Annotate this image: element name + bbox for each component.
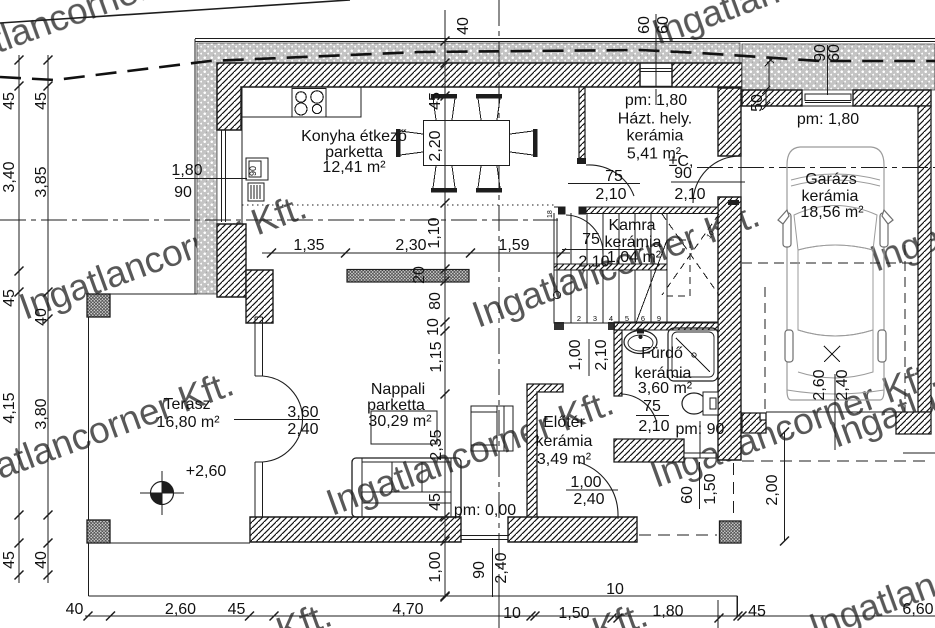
svg-text:6,60: 6,60 <box>902 601 933 618</box>
mirrors <box>778 210 789 224</box>
svg-text:40: 40 <box>66 601 84 618</box>
ENTRY PORCH <box>639 245 935 543</box>
svg-text:60: 60 <box>826 44 843 62</box>
bathroom door arc <box>621 394 656 420</box>
washbasin <box>624 331 657 354</box>
svg-text:40: 40 <box>33 551 50 569</box>
top wall hatched band with chimney hole <box>217 63 742 130</box>
svg-text:2,10: 2,10 <box>674 186 705 203</box>
toilet <box>682 393 706 414</box>
svg-text:2,30: 2,30 <box>395 237 426 254</box>
svg-text:1,00: 1,00 <box>427 551 444 582</box>
bathroom left wall <box>614 330 622 396</box>
garage SE pier <box>896 412 931 434</box>
svg-text:1,50: 1,50 <box>558 605 589 622</box>
DOORS <box>263 156 741 519</box>
KITCHEN DIM LINE 1,35/2,30/1,59 <box>262 249 570 258</box>
svg-text:90: 90 <box>471 561 488 579</box>
terrace pillar NW <box>87 294 110 317</box>
boundary dashed line <box>0 50 935 80</box>
svg-text:80: 80 <box>427 292 444 310</box>
svg-text:18: 18 <box>547 210 554 218</box>
svg-text:2,35: 2,35 <box>428 429 445 460</box>
svg-text:parketta: parketta <box>367 397 425 414</box>
entry door leaf <box>684 453 716 458</box>
ROTATED SMALL DIMS <box>471 14 851 597</box>
left wall hatch step A <box>217 224 246 297</box>
left wall hatch step B <box>246 270 273 323</box>
fridge <box>246 158 268 180</box>
svg-text:+2,60: +2,60 <box>186 463 227 480</box>
svg-text:2,10: 2,10 <box>593 339 610 370</box>
terrace double door arcs <box>263 376 303 462</box>
svg-text:75: 75 <box>605 168 623 185</box>
svg-text:10: 10 <box>606 581 624 598</box>
chair top-right <box>478 98 500 120</box>
svg-text:5: 5 <box>625 314 629 323</box>
chimney flue box <box>640 63 672 87</box>
TERRACE <box>87 294 737 616</box>
svg-text:4: 4 <box>609 314 613 323</box>
svg-text:2: 2 <box>577 314 581 323</box>
dining chairs <box>398 96 535 190</box>
svg-text:2,40: 2,40 <box>493 552 510 583</box>
svg-text:18,56 m²: 18,56 m² <box>800 204 864 221</box>
svg-text:kerámia: kerámia <box>802 188 859 205</box>
kamra/stair middle band <box>554 264 667 270</box>
svg-text:2,40: 2,40 <box>834 369 851 400</box>
svg-text:90: 90 <box>174 184 192 201</box>
stair outline <box>554 213 718 323</box>
LEFT DIM CHAIN inner <box>44 55 53 583</box>
svg-text:60: 60 <box>636 16 653 34</box>
coffee table <box>371 411 437 444</box>
DOOR DIMS <box>171 162 745 508</box>
terrace pillar SW <box>87 520 110 543</box>
svg-text:40: 40 <box>455 17 472 35</box>
terrace outline <box>89 294 251 596</box>
vertical section line <box>498 0 500 597</box>
armchair <box>471 406 513 451</box>
BEAM lintel <box>347 270 469 283</box>
garage stipple band <box>742 44 935 90</box>
svg-text:3,40: 3,40 <box>1 161 18 192</box>
dishwasher vents <box>248 183 264 201</box>
svg-text:3,80: 3,80 <box>33 398 50 429</box>
svg-text:3: 3 <box>593 314 597 323</box>
nappali east wall with top flange <box>527 384 563 519</box>
svg-text:3,85: 3,85 <box>33 166 50 197</box>
svg-text:45: 45 <box>33 92 50 110</box>
svg-text:3,49 m²: 3,49 m² <box>537 451 592 468</box>
dining table <box>424 121 510 166</box>
stair step numbers <box>547 210 716 323</box>
garage top hatch band with door hole <box>742 90 802 106</box>
svg-text:2,20: 2,20 <box>427 130 444 161</box>
svg-text:4,70: 4,70 <box>392 601 423 618</box>
utility/garage wall lower + stair/bath east wall <box>718 197 741 460</box>
ROOM LABELS <box>156 89 864 519</box>
stair top wall band <box>554 206 718 208</box>
left wall window frame <box>222 130 226 222</box>
svg-text:45: 45 <box>427 92 444 110</box>
FURNITURE <box>242 87 510 201</box>
svg-text:45: 45 <box>427 493 444 511</box>
svg-text:30,29 m²: 30,29 m² <box>368 413 432 430</box>
stipple joint line <box>765 58 774 91</box>
garage centerline <box>697 167 935 169</box>
garage inner dashed line <box>742 262 918 264</box>
MAIN-DRAWING <box>0 0 350 23</box>
svg-text:1,59: 1,59 <box>498 237 529 254</box>
south wall east part <box>508 517 637 542</box>
svg-text:1,04 m²: 1,04 m² <box>607 249 662 266</box>
svg-text:10: 10 <box>503 605 521 622</box>
SURVEY POINT <box>140 471 184 515</box>
svg-text:2,60: 2,60 <box>165 601 196 618</box>
top wall outer line (main house) <box>195 39 935 42</box>
WALLS <box>195 39 935 542</box>
MIDDLE DIM CHAIN x445 <box>441 10 450 602</box>
svg-text:Kamra: Kamra <box>608 217 655 234</box>
top+left insulation stipple band <box>197 43 740 294</box>
utility-garage door arc <box>693 156 740 203</box>
svg-text:3,60 m²: 3,60 m² <box>638 380 693 397</box>
svg-text:pm: 1,80: pm: 1,80 <box>797 111 859 128</box>
svg-text:75: 75 <box>582 231 600 248</box>
svg-text:2,00: 2,00 <box>764 474 781 505</box>
utility room left wall <box>579 87 585 163</box>
svg-text:2,40: 2,40 <box>573 491 604 508</box>
GARAGE-SHELL <box>741 44 935 434</box>
svg-text:45: 45 <box>1 92 18 110</box>
stair steps upper flight <box>571 213 667 264</box>
svg-text:1,00: 1,00 <box>567 339 584 370</box>
svg-text:45: 45 <box>1 289 18 307</box>
terrace apron bottom line <box>89 596 738 616</box>
stove <box>292 89 326 118</box>
svg-text:1,10: 1,10 <box>426 217 443 248</box>
svg-text:60: 60 <box>655 16 672 34</box>
forecourt dashed line <box>742 460 931 462</box>
garage top door panel <box>805 94 851 101</box>
svg-text:10: 10 <box>425 318 442 336</box>
car x mark <box>824 346 840 362</box>
line above SE <box>903 452 935 454</box>
garage interior edges <box>741 88 918 412</box>
svg-text:Házt. hely.: Házt. hely. <box>618 111 692 128</box>
svg-text:2,40: 2,40 <box>287 421 318 438</box>
svg-text:kerámia: kerámia <box>627 128 684 145</box>
kitchen interior wall line <box>241 87 243 224</box>
south window lines <box>461 536 508 540</box>
porch dashed outline <box>639 534 717 536</box>
south wall west part <box>250 517 461 542</box>
garage right wall <box>918 106 931 412</box>
svg-text:1,50: 1,50 <box>702 473 719 504</box>
svg-text:40: 40 <box>33 308 50 326</box>
stair steps lower flight <box>571 270 667 323</box>
svg-text:1,80: 1,80 <box>171 162 202 179</box>
svg-text:2,10: 2,10 <box>578 254 609 271</box>
svg-text:Terasz: Terasz <box>163 396 210 413</box>
svg-text:Garázs: Garázs <box>805 171 857 188</box>
shower <box>668 328 718 381</box>
LEFT DIM CHAIN outer <box>15 55 24 583</box>
entry hall door arc <box>578 462 618 519</box>
STAIRS <box>553 213 719 323</box>
bathroom top band <box>614 322 718 330</box>
kitchen counter <box>242 87 361 117</box>
svg-text:pm: 0,00: pm: 0,00 <box>454 502 516 519</box>
car wheels <box>783 213 791 247</box>
svg-text:90: 90 <box>248 166 258 176</box>
chair bottom-left <box>433 166 455 188</box>
svg-text:1,00: 1,00 <box>570 474 601 491</box>
kitchen counter dotted line <box>242 204 556 206</box>
svg-text:2,10: 2,10 <box>595 186 626 203</box>
svg-text:45: 45 <box>228 601 246 618</box>
CAR <box>787 147 884 400</box>
svg-text:Fürdő: Fürdő <box>641 345 683 362</box>
BOTTOM DIM CHAIN <box>84 592 935 628</box>
svg-text:20: 20 <box>411 266 428 284</box>
kamra door arc <box>566 215 603 254</box>
garage threshold line <box>766 411 896 413</box>
bathroom/entry bottom wall <box>614 439 684 462</box>
svg-text:Konyha étkező: Konyha étkező <box>301 128 407 145</box>
svg-text:4,15: 4,15 <box>1 392 18 423</box>
chair top-left <box>433 98 455 120</box>
stair dashed rect <box>667 240 690 296</box>
svg-text:1,80: 1,80 <box>652 603 683 620</box>
svg-text:9: 9 <box>657 314 661 323</box>
svg-text:45: 45 <box>748 603 766 620</box>
svg-text:1,35: 1,35 <box>293 237 324 254</box>
svg-text:kerámia: kerámia <box>536 433 593 450</box>
garage SW pier <box>742 413 766 433</box>
porch pillar <box>720 521 742 543</box>
svg-text:12,41 m²: 12,41 m² <box>322 159 386 176</box>
svg-text:Nappali: Nappali <box>371 381 425 398</box>
svg-text:45: 45 <box>1 551 18 569</box>
terrace door frames <box>255 317 263 517</box>
sofa <box>352 458 461 517</box>
svg-text:16,80 m²: 16,80 m² <box>156 414 220 431</box>
svg-text:75: 75 <box>643 398 661 415</box>
utility/garage separation wall upper <box>718 88 741 156</box>
svg-text:60: 60 <box>679 486 696 504</box>
forecourt car dashed sides <box>764 287 766 412</box>
horizontal centerline house <box>0 219 558 221</box>
chair bottom-right <box>478 166 500 188</box>
chair right <box>510 131 533 155</box>
utility door arc <box>586 165 634 196</box>
svg-text:Előtér: Előtér <box>543 414 585 431</box>
svg-text:3,60: 3,60 <box>287 404 318 421</box>
svg-text:1,15: 1,15 <box>428 341 445 372</box>
chair left <box>400 131 423 155</box>
stair direction diagonal <box>636 240 667 323</box>
svg-text:6: 6 <box>641 314 645 323</box>
boundary solid diagonal line <box>0 0 350 23</box>
svg-text:2,60: 2,60 <box>811 369 828 400</box>
svg-text:2,10: 2,10 <box>638 418 669 435</box>
stair dashed X <box>662 214 719 295</box>
stair start circle <box>553 291 560 298</box>
svg-text:90: 90 <box>674 165 692 182</box>
